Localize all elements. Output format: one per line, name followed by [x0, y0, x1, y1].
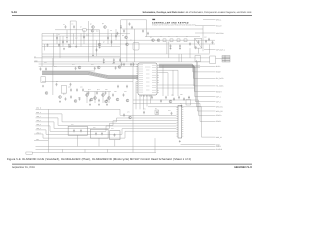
wire: [197, 60, 216, 107]
svg-text:Figure 5-8. HLN6900H GCAI (Sta: Figure 5-8. HLN6900H GCAI (Standard), HL…: [7, 158, 191, 161]
wire: [203, 19, 216, 21]
svg-text:R21: R21: [86, 35, 89, 37]
ground: [99, 46, 101, 48]
svg-text:SHIELD: SHIELD: [216, 148, 223, 151]
capacitor C6: [119, 58, 121, 61]
transistor Q7: [78, 66, 81, 69]
capacitor C1: [65, 25, 67, 28]
svg-text:BUS+: BUS+: [216, 65, 220, 68]
capacitor C11: [195, 46, 197, 49]
crystal Y1: [195, 38, 202, 48]
svg-text:FL1: FL1: [71, 124, 74, 126]
capacitor C64: [56, 37, 58, 40]
svg-text:C44: C44: [72, 64, 75, 66]
wire: [84, 91, 111, 93]
svg-text:L1: L1: [160, 36, 162, 38]
capacitor C55: [65, 97, 67, 100]
center label dashes U401: [145, 67, 151, 90]
resistor R1: [68, 45, 70, 48]
ground: [170, 47, 172, 49]
wire top rail A: [55, 29, 83, 31]
wire: [166, 42, 168, 55]
wire: [80, 34, 82, 47]
svg-text:C30: C30: [204, 37, 207, 39]
svg-text:FL3: FL3: [111, 128, 114, 130]
wire: [181, 54, 183, 62]
svg-text:C55: C55: [105, 89, 108, 91]
capacitor C14: [212, 41, 214, 44]
svg-text:LED_2: LED_2: [36, 119, 41, 122]
wire bus bottom 6: [36, 129, 177, 135]
wire: [148, 107, 216, 137]
wire: [77, 135, 79, 146]
ground: [92, 54, 94, 56]
wire bus line 4: [42, 53, 210, 55]
wire: [159, 72, 168, 74]
inductor L4: [184, 39, 187, 42]
IC U7: [133, 43, 139, 51]
svg-text:C45: C45: [91, 64, 94, 66]
capacitor C63: [123, 113, 125, 116]
wire: [135, 82, 137, 110]
capacitor C70: [115, 34, 117, 37]
svg-text:L2: L2: [168, 36, 170, 38]
wire: [132, 62, 134, 153]
svg-text:R9: R9: [66, 37, 68, 39]
capacitor C61: [142, 29, 144, 32]
capacitor C38: [189, 42, 191, 45]
connector J400: [178, 106, 182, 139]
wire bus line 1b: [42, 35, 120, 37]
capacitor C21: [76, 88, 78, 91]
wire: [133, 100, 216, 115]
shield label box: [26, 152, 33, 154]
transistor Q17: [105, 100, 108, 103]
capacitor C40: [96, 91, 98, 94]
transistor Q23: [129, 116, 132, 119]
wire: [111, 34, 113, 47]
svg-text:SHOWN WITH DIGITAL CONTROLLER: SHOWN WITH DIGITAL CONTROLLER AND BACKLI…: [152, 24, 196, 27]
wire: [189, 48, 191, 58]
ground: [179, 140, 181, 142]
svg-text:C65: C65: [171, 95, 174, 97]
transistor Q21: [74, 100, 77, 103]
capacitor C47: [123, 29, 125, 32]
wire: [47, 109, 49, 152]
svg-text:LED_1: LED_1: [36, 115, 41, 118]
inductor L1: [163, 39, 166, 42]
svg-text:RX_DATA: RX_DATA: [216, 77, 224, 80]
capacitor C41: [105, 91, 107, 94]
wire: [178, 54, 180, 62]
svg-text:C50: C50: [68, 87, 71, 89]
svg-text:SPKR+: SPKR+: [216, 114, 222, 117]
ground: [42, 85, 44, 87]
svg-text:RESET: RESET: [216, 90, 222, 93]
wire long bottom 3: [36, 148, 216, 150]
voltage regulator U2: [41, 77, 46, 83]
svg-text:GND2: GND2: [216, 145, 221, 148]
svg-text:C61: C61: [124, 91, 127, 93]
svg-text:C52: C52: [80, 87, 83, 89]
capacitor C57: [79, 97, 81, 100]
wire: [159, 67, 200, 69]
ground: [89, 103, 91, 105]
svg-text:C60: C60: [114, 91, 117, 93]
wire: [42, 70, 95, 72]
transistor Q3: [98, 43, 101, 46]
capacitor C67: [96, 48, 98, 51]
capacitor C60: [165, 96, 167, 99]
wire bus bottom 3: [36, 118, 177, 126]
capacitor C29: [188, 96, 190, 99]
wire: [88, 21, 90, 62]
transistor Q2: [104, 26, 107, 29]
transistor Q18: [116, 98, 119, 101]
capacitor C36: [156, 111, 158, 114]
resistor network box: [83, 29, 87, 31]
wire: [139, 95, 141, 109]
capacitor C48: [121, 63, 123, 66]
capacitor C7: [47, 44, 49, 47]
wire: [159, 84, 195, 86]
wire: [134, 29, 136, 62]
wire: [69, 21, 71, 46]
pin stubs bottom of U401: [140, 95, 151, 97]
wire: [70, 20, 76, 22]
capacitor C3: [117, 32, 119, 35]
capacitor C24: [98, 99, 100, 102]
wire: [159, 65, 216, 78]
transistor Q13: [102, 94, 105, 97]
svg-text:R12: R12: [96, 31, 99, 33]
wire bus line 5: [34, 57, 210, 59]
svg-text:C40: C40: [44, 62, 47, 64]
wire: [159, 87, 195, 89]
wire: [39, 63, 138, 65]
ground: [106, 103, 108, 105]
wire: [42, 81, 133, 83]
svg-text:MIC_HI: MIC_HI: [216, 136, 222, 139]
capacitor C53: [126, 85, 128, 88]
pin labels inside U401: [139, 65, 156, 93]
svg-text:Q12: Q12: [88, 89, 91, 91]
component reference labels: [44, 23, 207, 130]
svg-text:U2: U2: [130, 40, 132, 42]
wire bus line 1: [42, 33, 130, 35]
capacitor C59: [160, 99, 162, 102]
svg-text:SW_B+: SW_B+: [216, 25, 222, 28]
capacitor C68: [107, 36, 109, 39]
wire: [195, 25, 216, 27]
svg-text:C14: C14: [75, 38, 78, 40]
wire top rail B: [122, 28, 203, 30]
svg-text:J4: J4: [180, 103, 182, 105]
wire: [86, 92, 88, 104]
wire bus line 6: [34, 61, 210, 63]
inductor L2: [170, 39, 173, 42]
capacitor C22: [82, 88, 84, 91]
wire left edge vertical: [41, 34, 43, 67]
capacitor C15: [75, 67, 77, 70]
capacitor C19: [45, 67, 47, 70]
IC U401: [138, 63, 157, 95]
capacitor C54: [205, 40, 207, 43]
ground: [98, 103, 100, 105]
wire: [159, 67, 216, 97]
wire: [96, 40, 98, 56]
svg-text:U5: U5: [56, 81, 58, 83]
wire: [162, 65, 164, 96]
schematic title: [152, 19, 196, 27]
wire: [83, 30, 85, 44]
wire long bottom 2: [36, 145, 216, 147]
IC U5: [155, 110, 159, 114]
transistor Q20: [59, 96, 62, 99]
wire: [98, 138, 100, 146]
svg-text:R3: R3: [120, 25, 122, 27]
capacitor C65: [62, 40, 64, 43]
wire long bottom 1: [181, 144, 216, 146]
svg-text:Schematics, Overlays, and Part: Schematics, Overlays, and Parts Lists: L…: [143, 11, 253, 14]
wire: [92, 34, 94, 55]
left edge labels: [36, 107, 42, 142]
wire: [143, 95, 145, 109]
wire: [159, 67, 216, 101]
svg-text:Q14: Q14: [63, 94, 66, 96]
capacitor C69: [111, 40, 113, 43]
wire: [52, 33, 54, 66]
capacitor C32: [95, 132, 97, 135]
wire: [195, 32, 216, 34]
transistor Q15: [157, 39, 160, 42]
wire: [39, 65, 138, 67]
capacitor C34: [114, 133, 116, 136]
capacitor C72: [131, 26, 133, 29]
svg-text:SPKR-: SPKR-: [216, 120, 222, 123]
capacitor C45: [123, 93, 125, 96]
wire: [198, 48, 200, 53]
svg-text:5-16: 5-16: [12, 11, 18, 14]
wire: [159, 66, 216, 86]
capacitor C50: [130, 63, 132, 66]
capacitor C26: [173, 97, 175, 100]
wire: [84, 149, 86, 152]
capacitor C9: [170, 44, 172, 47]
wire: [115, 29, 117, 40]
capacitor C58: [151, 96, 153, 99]
wire bus line 4b: [42, 55, 120, 57]
svg-text:Q9: Q9: [150, 37, 152, 39]
capacitor C25: [106, 99, 108, 102]
svg-text:C72: C72: [168, 110, 171, 112]
capacitor C5: [113, 58, 115, 61]
transistor Q8: [97, 66, 100, 69]
capacitor C12: [198, 40, 200, 43]
capacitor C2: [73, 25, 75, 28]
capacitor C31: [80, 129, 82, 132]
capacitor C44: [112, 93, 114, 96]
IC U3: [61, 86, 66, 93]
svg-text:FL2: FL2: [93, 127, 96, 129]
svg-text:VIP_OUT_1: VIP_OUT_1: [216, 49, 225, 52]
wire: [126, 20, 128, 62]
capacitor C71: [129, 22, 131, 25]
transistor Q14: [108, 97, 111, 100]
connector table: [222, 56, 230, 63]
wire: [159, 64, 200, 66]
capacitor C43: [70, 83, 72, 86]
transistor Q5: [126, 43, 129, 46]
capacitor C33: [101, 132, 103, 135]
svg-text:Q7: Q7: [103, 42, 105, 44]
capacitor C27: [178, 96, 180, 99]
svg-text:C70: C70: [143, 109, 146, 111]
svg-text:R30: R30: [120, 62, 123, 64]
svg-text:VIP_2: VIP_2: [216, 100, 221, 103]
capacitor C18: [40, 67, 42, 70]
wire: [198, 62, 216, 111]
ground: [181, 104, 183, 106]
svg-text:IGNITION: IGNITION: [216, 32, 224, 35]
svg-text:6881096C73-O: 6881096C73-O: [234, 166, 252, 169]
filter FL1: [210, 56, 216, 64]
transistor Q6: [152, 39, 155, 42]
transistor Q9: [118, 66, 121, 69]
capacitor C66: [83, 35, 85, 38]
capacitor C49: [123, 63, 125, 66]
wire: [66, 30, 68, 40]
svg-text:C47: C47: [112, 63, 115, 65]
wire: [150, 95, 152, 103]
capacitor C20: [70, 88, 72, 91]
svg-text:KPD_R2: KPD_R2: [216, 110, 223, 113]
wire: [204, 49, 216, 51]
wire: [99, 30, 101, 46]
wire bus bottom 1: [36, 109, 177, 115]
ground: [103, 61, 105, 63]
svg-text:C2: C2: [58, 34, 60, 36]
capacitor C30: [73, 129, 75, 132]
svg-text:C57: C57: [78, 97, 81, 99]
capacitor C51: [133, 63, 135, 66]
IC U6: [186, 100, 191, 106]
wire: [52, 58, 54, 95]
capacitor C52: [117, 85, 119, 88]
filter box FL3: [90, 129, 108, 138]
filter box FL4: [110, 131, 120, 140]
capacitor C13: [208, 38, 210, 41]
ground: [69, 45, 71, 47]
transistor Q12: [94, 97, 97, 100]
pin stubs right of U401: [157, 65, 159, 92]
svg-text:Y1: Y1: [186, 36, 188, 38]
wire: [167, 73, 169, 96]
svg-text:L3: L3: [176, 36, 178, 38]
capacitor C35: [143, 111, 145, 114]
wire bus bottom 4: [36, 122, 177, 128]
capacitor C39: [88, 91, 90, 94]
svg-text:Q8: Q8: [122, 35, 124, 37]
ground: [63, 48, 65, 50]
filter box FL2: [68, 126, 87, 135]
svg-text:C41: C41: [54, 66, 57, 68]
svg-text:U7: U7: [155, 108, 157, 110]
svg-text:Q5: Q5: [102, 23, 104, 25]
capacitor C10: [179, 44, 181, 47]
svg-text:C9: C9: [110, 30, 112, 32]
svg-text:LED_4: LED_4: [36, 127, 41, 130]
transistor Q22: [169, 100, 172, 103]
wire: [107, 29, 109, 44]
wire: [120, 20, 122, 62]
svg-text:September 26, 2003: September 26, 2003: [12, 166, 35, 169]
wire: [94, 92, 96, 104]
svg-text:U6: U6: [188, 97, 190, 99]
capacitor C37: [171, 112, 173, 115]
svg-text:R7: R7: [80, 27, 82, 29]
transistor Q16: [90, 98, 93, 101]
svg-text:5V: 5V: [34, 55, 36, 58]
transistor Q4: [125, 36, 128, 39]
wire: [159, 66, 216, 91]
wire bus line 2: [42, 39, 215, 41]
wire bus bottom 2: [36, 114, 177, 122]
svg-text:Q4: Q4: [90, 24, 92, 26]
wire: [154, 138, 156, 152]
wire: [146, 20, 148, 37]
capacitor C56: [70, 95, 72, 98]
capacitor C62: [147, 32, 149, 35]
svg-text:KPD_R1: KPD_R1: [216, 105, 223, 108]
wire bus bottom 5: [36, 126, 177, 131]
wire: [75, 21, 77, 46]
transistor Q1: [92, 26, 95, 29]
capacitor C23: [89, 99, 91, 102]
wire: [209, 45, 211, 54]
ground: [179, 47, 181, 49]
wire: [146, 95, 148, 107]
IC U4: [195, 56, 201, 62]
transistor Q19: [126, 99, 129, 102]
wire: [102, 92, 104, 104]
wire: [168, 42, 170, 58]
transistor Q1b: [91, 29, 94, 32]
capacitor C17: [115, 66, 117, 69]
svg-text:Q13: Q13: [97, 89, 100, 91]
wire: [62, 36, 64, 47]
svg-text:KPD_1: KPD_1: [216, 18, 221, 21]
pin teeth J400: [176, 108, 183, 137]
svg-text:SWB+: SWB+: [216, 71, 221, 74]
wire: [59, 36, 61, 58]
header rule: [12, 14, 252, 16]
capacitor C16: [94, 67, 96, 70]
svg-text:R4: R4: [72, 24, 74, 26]
transistor Q10: [45, 92, 48, 95]
wire: [108, 92, 110, 104]
transistor Q11: [86, 94, 89, 97]
ground: [59, 100, 61, 102]
inductor L3: [177, 39, 180, 42]
wire: [159, 64, 216, 66]
capacitor C28: [183, 97, 185, 100]
capacitor C8: [58, 44, 60, 47]
ground: [66, 41, 68, 43]
svg-text:C75: C75: [127, 112, 130, 114]
capacitor C42: [56, 83, 58, 86]
ground: [113, 61, 115, 63]
